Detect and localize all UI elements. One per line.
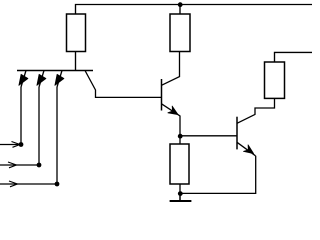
transistor Q3 emitter arrow — [244, 145, 254, 154]
input A arrowhead — [12, 142, 21, 148]
input C arrowhead — [9, 181, 18, 187]
wire R3 top to right edge — [275, 52, 313, 62]
wire ground node to Q3 emitter — [180, 156, 256, 194]
transistor Q3 emitter — [237, 142, 256, 156]
transistor Q3 base bar — [236, 117, 238, 150]
resistor R4 — [170, 144, 189, 184]
wire R4 bottom stub — [179, 184, 181, 194]
transistor Q2 collector — [162, 52, 180, 86]
transistor Q1 multi-emitter base bar — [17, 70, 93, 72]
transistor Q1 emitter 2 — [39, 71, 44, 166]
node input C dot — [55, 182, 60, 187]
resistor R2 — [170, 14, 190, 52]
transistor Q1 emitter 2 arrow — [37, 74, 46, 85]
transistor Q1 emitter 3 arrow — [55, 74, 64, 85]
wire R1 bottom to Q1 base — [75, 52, 77, 71]
transistor Q1 emitter 1 arrow — [19, 74, 28, 85]
wire input A — [0, 144, 21, 146]
node ground dot — [178, 191, 183, 196]
transistor Q2 emitter arrow — [168, 106, 178, 115]
resistor R3 — [265, 62, 285, 98]
input B arrowhead — [8, 162, 17, 168]
resistor R1 — [67, 14, 86, 52]
transistor Q1 emitter 1 — [21, 71, 26, 145]
node top junction dot — [178, 2, 183, 7]
wire node A to Q3 base — [180, 135, 237, 137]
node input A dot — [19, 142, 24, 147]
wire R2 top stub — [179, 5, 181, 15]
wire input C — [0, 183, 57, 185]
wire VCC top rail — [76, 5, 313, 15]
transistor Q1 collector to Q2 base wire — [85, 71, 162, 98]
node input B dot — [37, 163, 42, 168]
transistor Q1 emitter 3 — [57, 71, 62, 185]
transistor Q3 collector — [237, 98, 275, 123]
node A dot (Q2 emitter / R4 / Q3 base) — [178, 134, 183, 139]
wire node A to R4 — [179, 136, 181, 144]
transistor Q2 emitter — [162, 104, 181, 136]
ground — [170, 193, 192, 201]
wire input B — [0, 164, 39, 166]
transistor Q2 base bar — [161, 79, 163, 111]
